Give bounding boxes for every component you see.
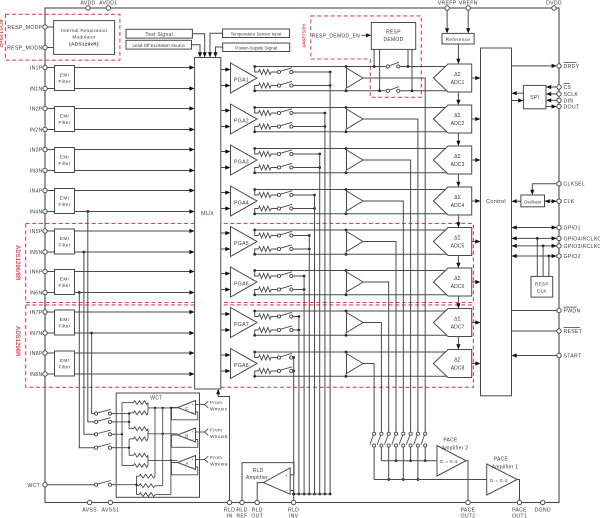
EMI filter channel 7 (55, 310, 75, 335)
wire PGA5 N output line (255, 253, 447, 255)
pin PACE_OUT2 (466, 500, 470, 504)
wire PGA8 P output line (255, 351, 446, 353)
svg-text:WCT: WCT (150, 396, 162, 402)
svg-text:DOUT: DOUT (564, 105, 580, 111)
wire RESP_MODN to modulator (47, 47, 53, 49)
pin GPIO3/RCLKO bidirectional wire with RESP CLK tap (512, 245, 557, 247)
svg-text:IN2N: IN2N (30, 128, 43, 134)
WCT amp B (178, 428, 196, 442)
wire IN2N to MUX (47, 129, 54, 131)
svg-text:+: + (191, 457, 194, 462)
svg-text:G = 0.4: G = 0.4 (490, 478, 508, 484)
svg-text:Internal Respiration: Internal Respiration (61, 28, 107, 33)
wire ADC5 to control (472, 241, 476, 243)
svg-text:RESP_MODN: RESP_MODN (7, 46, 42, 52)
svg-text:GPIO2: GPIO2 (564, 254, 581, 260)
RLD amplifier (263, 468, 290, 494)
svg-text:ADC6: ADC6 (451, 284, 465, 290)
WCT averaging resistor 2 (139, 484, 155, 488)
switch PACE select channel 6 (387, 432, 390, 435)
svg-text:Modulator: Modulator (72, 34, 96, 39)
svg-text:+: + (285, 474, 288, 479)
pin VREFN (466, 6, 470, 10)
wire RLD bus vertical channel 3 (319, 154, 321, 494)
wire MUX to PGA7 (N) (221, 329, 226, 331)
wire MUX to PGA7 (P) (221, 313, 226, 315)
svg-text:GPIO1: GPIO1 (564, 226, 581, 232)
PGA1 (231, 63, 258, 93)
wire PGA7 P output line (255, 310, 446, 312)
WCT network left vertical (r1-r6 tie) (121, 403, 123, 466)
wire RLD amplifier inverting input to RLD_INV and RLD bus (290, 491, 293, 501)
wire RLD_IN to MUX feedback (218, 394, 229, 501)
wire IN8P to MUX (47, 352, 54, 354)
wire ADC4 to control (472, 200, 476, 202)
pin DRDY with wire from control (512, 65, 553, 67)
svg-text:Reference: Reference (446, 37, 471, 43)
svg-text:IN1N: IN1N (30, 87, 43, 93)
WCT amp C (178, 401, 196, 415)
svg-text:Filter: Filter (58, 324, 70, 329)
EMI filter channel 8 (55, 351, 75, 376)
block RESP DEMOD (371, 23, 415, 50)
svg-text:RESP_DEMOD_EN: RESP_DEMOD_EN (312, 33, 360, 39)
wire IN5P to MUX (47, 230, 54, 232)
pin RLD_OUT (255, 500, 259, 504)
svg-text:MUX: MUX (201, 211, 214, 217)
wire buffer output to PACE bus channel 3 (363, 160, 411, 432)
wire reference chain into ADC5 (457, 215, 459, 223)
resistor RLD tap top channel 5 (255, 230, 259, 236)
PACE amplifier 2 (437, 446, 466, 477)
svg-text:−: − (285, 489, 288, 494)
wire IN4N tap to WCT switch (86, 210, 89, 213)
buffer amplifier channel 8 (345, 351, 348, 354)
svg-text:−: − (191, 465, 194, 470)
WCT resistor pair 1 (amp C) (134, 401, 149, 405)
block internal respiration modulator (54, 21, 115, 55)
wire ADC2 to control (472, 118, 476, 120)
svg-text:Amplifier 2: Amplifier 2 (442, 445, 469, 451)
wire IN7P to MUX (47, 311, 54, 313)
switch RLD tap bottom channel 6 (277, 288, 280, 291)
wire IN1P to MUX (47, 67, 54, 69)
wire reference chain into ADC3 (457, 133, 459, 142)
switch RLD tap top channel 3 (277, 152, 280, 155)
pin IN8N (43, 372, 47, 376)
wire IN4P to MUX (47, 190, 54, 192)
svg-text:Oscillator: Oscillator (524, 199, 542, 204)
switch PACE select channel 3 (409, 432, 412, 435)
svg-text:SPI: SPI (530, 95, 539, 101)
switch RLD tap bottom channel 8 (277, 369, 280, 372)
WCT switch row 2 wire (116, 421, 129, 423)
wire RLD bus vertical channel 7 (298, 317, 300, 495)
svg-text:EMI: EMI (60, 317, 69, 322)
wire power-supply signal to MUX (216, 47, 223, 53)
svg-text:CLKSEL: CLKSEL (564, 182, 586, 188)
resistor RLD tap top channel 3 (255, 149, 259, 155)
delta-sigma ADC5 (433, 228, 471, 256)
svg-text:PGA1: PGA1 (234, 78, 249, 84)
switch WCT input 3 (from IN5N) (95, 433, 98, 436)
svg-text:AVSS: AVSS (82, 508, 97, 514)
pin IN4P (43, 188, 47, 192)
WCT switch row 4 wire (116, 447, 129, 449)
svg-text:ΔΣ: ΔΣ (454, 72, 461, 78)
pin CS with wire into SPI (551, 86, 557, 88)
svg-text:PGA2: PGA2 (234, 119, 249, 125)
wire PGA6 N output line (255, 294, 447, 296)
pin DVDD (552, 6, 556, 10)
EMI filter channel 5 (55, 229, 75, 254)
resistor RLD tap top channel 8 (255, 352, 259, 358)
wire RLD tap top to bus channel 5 (293, 235, 309, 237)
svg-text:From: From (210, 428, 222, 434)
svg-text:−: − (191, 410, 194, 415)
svg-text:IN4P: IN4P (30, 189, 43, 195)
svg-text:IN8N: IN8N (30, 372, 43, 378)
delta-sigma ADC6 (433, 268, 471, 296)
switch RLD tap top channel 8 (277, 356, 280, 359)
svg-text:DRDY: DRDY (564, 64, 580, 70)
wire RLD bus vertical channel 1 (329, 72, 331, 494)
svg-text:ADC2: ADC2 (451, 121, 465, 127)
wire IN2P to MUX (47, 108, 54, 110)
pin DIN with wire into SPI (551, 99, 557, 101)
wire IN6P to MUX (47, 271, 54, 273)
svg-text:PGA8: PGA8 (234, 363, 249, 369)
svg-text:ΔΣ: ΔΣ (454, 358, 461, 364)
wire MUX to PGA3 (N) (221, 167, 226, 169)
svg-text:ΔΣ: ΔΣ (454, 236, 461, 242)
svg-text:IN5P: IN5P (30, 229, 43, 235)
svg-text:IN7P: IN7P (30, 310, 43, 316)
buffer amplifier channel 3 (345, 147, 348, 150)
svg-text:IN5N: IN5N (30, 250, 43, 256)
pin DOUT with wire from SPI (546, 106, 552, 108)
pin CLK with bidirectional wire to oscillator (545, 200, 557, 202)
PACE amplifier 1 (487, 464, 518, 495)
svg-text:+: + (191, 402, 194, 407)
svg-text:PGA4: PGA4 (234, 201, 249, 207)
pin IN7N (43, 331, 47, 335)
wire IN8N to MUX (47, 373, 54, 375)
delta-sigma ADC4 (433, 187, 471, 215)
wire IN7N to MUX (47, 332, 54, 334)
wire buffer output to PACE bus channel 2 (363, 119, 418, 432)
svg-text:AVDD1: AVDD1 (99, 1, 117, 7)
wire PGA1 N output line (255, 90, 447, 92)
svg-text:CLK: CLK (537, 289, 548, 295)
wire RLD_REF feedback loop around RLD amplifier (242, 463, 294, 501)
wire SPI to control (516, 92, 523, 94)
pin RLD_REF (240, 500, 244, 504)
wire RLD tap top to bus channel 3 (293, 153, 320, 155)
PGA4 (231, 186, 258, 216)
pin AVSS (87, 500, 91, 504)
svg-text:DGND: DGND (534, 508, 550, 514)
svg-text:OUT: OUT (251, 514, 263, 518)
dashed region ADS129xR (respiration modulator) (6, 14, 120, 60)
WCT amp B input From Wmuxb (196, 431, 205, 433)
wire buffer output to PACE bus channel 7 (363, 323, 381, 433)
wire PGA4 P output line (255, 189, 446, 191)
pin RESP_MODN (43, 45, 47, 49)
wire RESP_MODP to modulator (47, 26, 53, 28)
svg-text:IN7N: IN7N (30, 331, 43, 337)
svg-text:ΔΣ: ΔΣ (454, 276, 461, 282)
WCT amp A input From Wmuxa (196, 459, 205, 461)
wire RLD tap bottom to bus channel 6 (293, 289, 304, 291)
svg-text:IN2P: IN2P (30, 107, 43, 113)
resistor RLD tap bottom channel 2 (255, 127, 259, 132)
block SPI (523, 85, 546, 108)
svg-text:SCLK: SCLK (564, 92, 579, 98)
pin GPIO2 bidirectional wire with RESP CLK tap (512, 255, 557, 257)
wire PGA3 N output line (255, 172, 447, 174)
resistor RLD tap top channel 4 (255, 190, 259, 196)
wire PGA7 N output line (255, 334, 447, 336)
switch RESP series N line (386, 89, 400, 93)
svg-text:Filter: Filter (58, 79, 70, 84)
block temperature sensor input (223, 29, 290, 38)
svg-text:Filter: Filter (58, 283, 70, 288)
svg-text:VREFP: VREFP (438, 1, 457, 7)
wire PGA2 P output line (255, 107, 446, 109)
svg-text:Wmuxa: Wmuxa (210, 462, 228, 468)
svg-text:A: A (185, 461, 189, 467)
pin IN5P (43, 229, 47, 233)
svg-text:CLK: CLK (564, 199, 575, 205)
pin AVSS1 (108, 500, 112, 504)
pin IN6P (43, 269, 47, 273)
switch RLD tap bottom channel 4 (277, 207, 280, 210)
svg-text:IN1P: IN1P (30, 66, 43, 72)
svg-text:Filter: Filter (58, 120, 70, 125)
pin RESET with wire to control (512, 330, 557, 332)
WCT amp C feedback (172, 408, 198, 420)
svg-text:RESP_MODP: RESP_MODP (7, 25, 42, 31)
wire reference chain into ADC6 (457, 256, 459, 264)
wire MUX to PGA5 (P) (221, 232, 226, 234)
svg-text:Filter: Filter (58, 202, 70, 207)
block test signal (126, 29, 192, 38)
svg-text:RESET: RESET (564, 329, 583, 335)
block power-supply signal (223, 43, 290, 52)
svg-text:EMI: EMI (60, 196, 69, 201)
svg-text:IN8P: IN8P (30, 351, 43, 357)
svg-text:(ADS129xR): (ADS129xR) (69, 42, 99, 47)
svg-text:ADS129xR: ADS129xR (0, 19, 3, 47)
WCT switch row 1 wire (116, 413, 129, 415)
WCT network vertical r4-r5 (128, 439, 130, 455)
wire RLD tap bottom to bus channel 5 (293, 248, 309, 250)
svg-text:Filter: Filter (58, 365, 70, 370)
switch RLD tap top channel 1 (277, 70, 280, 73)
wire reference chain into ADC8 (457, 337, 459, 346)
switch RLD tap top channel 5 (277, 234, 280, 237)
svg-text:IN: IN (227, 514, 233, 518)
switch WCT input 1 (from IN7N) (95, 412, 98, 415)
pin IN5N (43, 250, 47, 254)
switch RLD tap top channel 6 (277, 274, 280, 277)
switch RLD tap bottom channel 1 (277, 84, 280, 87)
wire PACE amplifier 2 output to PACE_OUT2 (466, 461, 468, 501)
switch RLD tap bottom channel 2 (277, 125, 280, 128)
PGA8 (231, 349, 258, 379)
pin RLD_INV (291, 500, 295, 504)
wire IN7N tap to WCT switch (90, 332, 93, 335)
delta-sigma ADC7 (433, 309, 471, 337)
resistor RLD tap top channel 2 (255, 108, 259, 114)
svg-text:OUT2: OUT2 (461, 514, 476, 518)
pin PACE_OUT1 (517, 500, 521, 504)
svg-text:ADC5: ADC5 (451, 244, 465, 250)
svg-text:EMI: EMI (60, 155, 69, 160)
wire MUX to PGA6 (P) (221, 273, 226, 275)
PGA5 (231, 227, 258, 257)
PGA6 (231, 267, 258, 297)
block oscillator (521, 195, 545, 207)
svg-text:Power-Supply Signal: Power-Supply Signal (235, 46, 277, 51)
resistor RLD tap bottom channel 3 (255, 168, 259, 173)
delta-sigma ADC1 (433, 64, 471, 92)
pin IN1P (43, 65, 47, 69)
svg-text:PGA6: PGA6 (234, 282, 249, 288)
wire RESP DEMOD to N line (left) (379, 49, 381, 90)
switch RLD tap top channel 4 (277, 193, 280, 196)
pin AVDD1 (106, 6, 110, 10)
switch PACE select channel 5 (394, 432, 397, 435)
wire RLD tap top to bus channel 1 (293, 71, 330, 73)
switch WCT pin (95, 483, 98, 486)
wire RLD bus vertical channel 5 (308, 236, 310, 495)
block MUX (195, 58, 221, 390)
wire RESP DEMOD to P line (left) (373, 49, 375, 66)
wire reference chain into ADC7 (457, 296, 459, 304)
wire ADC3 to control (472, 159, 476, 161)
switch WCT input 2 (from IN4N) (95, 420, 98, 423)
svg-text:C: C (185, 406, 189, 412)
wire RLD tap bottom to bus channel 4 (293, 208, 315, 210)
block reference (442, 33, 474, 44)
svg-text:PACE: PACE (494, 456, 509, 462)
switch PACE select channel 1 (424, 432, 427, 435)
wire IN5N to MUX (47, 251, 54, 253)
pin IN4N (43, 209, 47, 213)
wire reference chain into ADC1 (457, 44, 459, 60)
WCT amp A (178, 456, 196, 470)
wire PGA1 P output line (255, 66, 446, 68)
wire control to SPI (512, 100, 519, 102)
svg-text:B: B (185, 434, 188, 440)
svg-text:IN4N: IN4N (30, 210, 43, 216)
pin IN1N (43, 86, 47, 90)
svg-text:ADS129xR: ADS129xR (301, 24, 307, 49)
wire PGA2 N output line (255, 131, 447, 133)
pin IN3N (43, 168, 47, 172)
WCT resistor pair 2 (amp B) (134, 427, 149, 431)
svg-text:DVDD: DVDD (546, 1, 562, 7)
WCT network vertical r2-r3 (128, 413, 130, 429)
svg-text:Test Signal: Test Signal (145, 32, 173, 38)
wire MUX to PGA6 (N) (221, 289, 226, 291)
svg-text:GPIO4/RCLKO: GPIO4/RCLKO (564, 236, 600, 242)
wire IN3N to MUX (47, 170, 54, 172)
switch RLD tap top channel 2 (277, 111, 280, 114)
wire VREFP to reference (446, 10, 448, 29)
svg-text:DIN: DIN (564, 98, 574, 104)
svg-text:+: + (191, 429, 194, 434)
EMI filter channel 2 (55, 107, 75, 132)
WCT averaging resistor left join to WCT pin (137, 475, 140, 477)
wire RLD tap top to bus channel 6 (293, 275, 304, 277)
wire RLD bus vertical channel 2 (324, 113, 326, 494)
block control (481, 48, 512, 396)
wire ADC7 to control (472, 322, 476, 324)
svg-text:EMI: EMI (60, 358, 69, 363)
wire PACE switch to bus channel 3 (410, 447, 412, 461)
wire MUX to PGA4 (P) (221, 192, 226, 194)
WCT amp A feedback (172, 463, 198, 475)
wire ADC8 to control (472, 363, 476, 365)
svg-text:ΔΣ: ΔΣ (454, 154, 461, 160)
svg-text:Filter: Filter (58, 161, 70, 166)
buffer amplifier channel 2 (345, 106, 348, 109)
pin IN2N (43, 127, 47, 131)
wire MUX to PGA2 (N) (221, 126, 226, 128)
wire RLD bus vertical channel 8 (293, 358, 295, 495)
wire buffer output to PACE bus channel 5 (363, 242, 396, 433)
wire IN3P to MUX (47, 149, 54, 151)
svg-text:Filter: Filter (58, 243, 70, 248)
wire PACE switch to bus channel 4 (402, 447, 404, 479)
wire RLD tap bottom to bus channel 8 (292, 370, 295, 372)
resistor RLD tap bottom channel 7 (255, 330, 259, 335)
svg-text:Lead-Off Excitation Source: Lead-Off Excitation Source (132, 43, 185, 48)
switch PACE select channel 8 (373, 432, 376, 435)
svg-text:RESP: RESP (386, 30, 401, 36)
svg-text:ΔΣ: ΔΣ (454, 113, 461, 119)
pin RLD_IN (227, 500, 231, 504)
svg-text:AVSS1: AVSS1 (102, 508, 120, 514)
wire RLD tap bottom to bus channel 3 (293, 167, 320, 169)
wire PACE bus 2 (to PACE amplifier 1) (374, 479, 487, 481)
wire PACE switch to bus channel 7 (380, 447, 382, 461)
svg-text:EMI: EMI (60, 114, 69, 119)
switch PACE select channel 2 (416, 432, 419, 435)
svg-text:AVDD: AVDD (80, 1, 95, 7)
dashed region ADS1298R (channels 7-8) (26, 305, 474, 387)
EMI filter channel 1 (55, 66, 75, 91)
svg-text:EMI: EMI (60, 73, 69, 78)
switch PACE select channel 7 (380, 432, 383, 435)
wire IN6N tap to WCT switch (78, 291, 81, 294)
resistor RLD tap bottom channel 6 (255, 290, 259, 295)
wire PACE amplifier 1 output to PACE_OUT1 (517, 480, 519, 501)
wire PACE switch to bus channel 8 (373, 447, 375, 479)
switch RLD tap top channel 7 (277, 315, 280, 318)
svg-text:IN3P: IN3P (30, 148, 43, 154)
dashed region ADS129xR (respiration demodulator) (311, 16, 422, 97)
wire MUX to PGA5 (N) (221, 248, 226, 250)
pin VREFP (445, 6, 449, 10)
wire RESP DEMOD to P line (right) (407, 49, 409, 66)
svg-text:OUT1: OUT1 (512, 514, 527, 518)
wire PGA3 P output line (255, 148, 446, 150)
svg-text:WCT: WCT (27, 483, 40, 489)
